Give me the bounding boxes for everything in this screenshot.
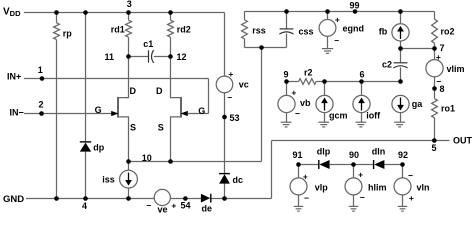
svg-text:fb: fb	[379, 27, 388, 37]
svg-text:dln: dln	[372, 146, 386, 156]
svg-text:2: 2	[39, 100, 44, 110]
svg-text:gcm: gcm	[329, 111, 348, 121]
svg-text:rd2: rd2	[177, 25, 191, 35]
svg-text:11: 11	[105, 52, 115, 62]
svg-text:+: +	[335, 14, 340, 24]
svg-text:vlp: vlp	[315, 183, 329, 193]
svg-text:ve: ve	[158, 204, 168, 214]
svg-text:rss: rss	[252, 26, 266, 36]
svg-text:de: de	[202, 204, 213, 214]
svg-text:+: +	[436, 52, 441, 62]
svg-text:D: D	[156, 86, 163, 96]
svg-text:ro2: ro2	[441, 27, 455, 37]
svg-text:ro1: ro1	[441, 104, 455, 114]
svg-text:dlp: dlp	[317, 146, 331, 156]
svg-text:6: 6	[360, 70, 365, 80]
svg-text:ga: ga	[412, 99, 423, 109]
svg-text:−: −	[304, 193, 309, 203]
svg-text:dc: dc	[233, 175, 244, 185]
svg-text:ioff: ioff	[366, 111, 381, 121]
svg-text:D: D	[130, 86, 137, 96]
svg-text:G: G	[198, 106, 205, 116]
svg-text:91: 91	[293, 150, 303, 160]
svg-text:5: 5	[431, 143, 436, 153]
svg-text:53: 53	[230, 113, 240, 123]
svg-text:+: +	[303, 172, 308, 182]
svg-text:css: css	[299, 27, 314, 37]
svg-text:+: +	[291, 88, 296, 98]
svg-text:−: −	[146, 201, 151, 211]
svg-text:9: 9	[284, 70, 289, 80]
svg-text:+: +	[358, 170, 363, 180]
svg-text:S: S	[130, 122, 136, 132]
svg-text:vln: vln	[417, 183, 430, 193]
svg-text:vlim: vlim	[447, 64, 465, 74]
svg-text:c1: c1	[143, 39, 153, 49]
svg-text:−: −	[436, 76, 441, 86]
svg-text:IN−: IN−	[10, 108, 24, 118]
svg-text:S: S	[158, 122, 164, 132]
svg-text:99: 99	[350, 1, 360, 11]
svg-text:+: +	[171, 200, 176, 210]
svg-text:1: 1	[38, 65, 43, 75]
svg-text:+: +	[228, 69, 233, 79]
svg-text:c2: c2	[382, 60, 392, 70]
svg-text:r2: r2	[304, 67, 313, 77]
svg-text:OUT: OUT	[453, 136, 473, 146]
svg-text:3: 3	[127, 0, 132, 9]
svg-text:4: 4	[82, 201, 87, 211]
svg-text:egnd: egnd	[343, 23, 365, 33]
svg-text:−: −	[360, 193, 365, 203]
svg-text:−: −	[227, 93, 232, 103]
svg-text:dp: dp	[93, 142, 104, 152]
svg-text:rd1: rd1	[111, 25, 125, 35]
svg-text:−: −	[295, 108, 300, 118]
svg-text:−: −	[408, 171, 413, 181]
svg-text:iss: iss	[102, 174, 115, 184]
svg-text:12: 12	[177, 52, 187, 62]
svg-text:rp: rp	[63, 28, 73, 38]
svg-text:+: +	[409, 193, 414, 203]
svg-text:90: 90	[349, 150, 359, 160]
svg-text:92: 92	[398, 150, 408, 160]
svg-text:G: G	[95, 105, 102, 115]
svg-text:10: 10	[142, 153, 152, 163]
svg-text:vc: vc	[239, 80, 249, 90]
svg-text:hlim: hlim	[368, 183, 387, 193]
svg-text:IN+: IN+	[7, 71, 21, 81]
svg-text:VDD: VDD	[3, 7, 21, 19]
svg-text:−: −	[334, 36, 339, 46]
svg-text:GND: GND	[3, 194, 24, 205]
svg-text:54: 54	[181, 201, 191, 211]
svg-text:vb: vb	[300, 98, 311, 108]
